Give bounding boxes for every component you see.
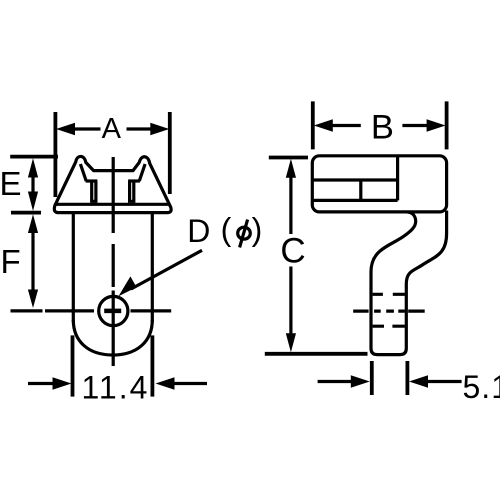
front view: left ear slot U [92,181,96,201]
dimension 5.1: left extension line [370,361,374,395]
dimension E: double arrow [31,174,34,194]
dimension E: top extension line [10,155,58,159]
front view: right ear inner diagonal [139,164,145,181]
hole leader D: line [131,250,202,289]
side view: head horizontal line lower [312,199,397,202]
svg-text:C: C [280,231,305,270]
front view: horizontal centerline (also F extension) [11,309,172,312]
svg-text:): ) [252,212,263,248]
side view: head vertical divider [396,156,399,201]
dimension 11.4: right arrow [174,382,207,385]
dimension C: top extension line [269,156,308,160]
dimension 5.1: right arrow [427,380,462,383]
dimension C: lower arrow [289,267,292,338]
front view: hole circle [99,296,128,325]
dimension 5.1: right extension line [405,361,409,395]
dimension F: arrow [31,228,34,294]
svg-text:B: B [371,108,394,146]
side view: hole horizontal centerline [353,310,425,313]
svg-text:(: ( [221,212,232,248]
front view: right ear slot cap [128,179,140,182]
front view: base top line [56,203,170,206]
side view: head short divider [359,180,362,200]
svg-text:F: F [1,243,21,280]
dimension 11.4: left extension line [71,335,75,396]
side view: hole hidden line top [373,293,405,296]
dimension 5.1: left arrow [318,380,352,383]
front view: body right edge [151,213,154,322]
dimension C: bottom extension line [265,352,368,356]
side view: body profile [371,211,447,355]
svg-text:E: E [0,165,22,202]
dimension A: right extension line [168,112,172,194]
front view: body bottom dome [73,320,152,355]
front view: right ear slot U [130,181,134,201]
front view: hole center dash (thick) [104,309,121,314]
dimension E/F: middle extension line [11,211,41,215]
dimension B: right arrow [402,124,427,127]
dimension C: upper arrow [289,175,292,234]
dimension A: left extension line [54,112,58,197]
dimension B: right extension line [445,101,449,149]
svg-text:A: A [102,113,122,145]
dimension B: left arrow [331,124,361,127]
side view: hole hidden line bottom [373,325,405,328]
dimension A: right arrow [127,127,152,130]
front view: body left edge [72,213,75,322]
dimension A: left arrow [74,127,101,130]
side view: head horizontal line upper [312,178,397,181]
front view: vertical centerline [112,157,115,366]
svg-text:11.4: 11.4 [82,370,150,406]
svg-text:5.1: 5.1 [463,369,500,405]
front view: left ear slot cap [86,179,98,182]
dimension B: left extension line [311,101,315,149]
dimension 11.4: right extension line [150,335,154,396]
side view: head rounded rectangle [312,156,446,212]
dimension 11.4: left arrow [28,382,54,385]
front view: head outline (saddle with two ears) [54,156,171,212]
hole leader D: phi symbol [238,227,251,239]
hole leader D: arrowhead [119,276,137,296]
front view: left ear inner diagonal [80,164,86,181]
svg-text:D: D [187,213,210,249]
